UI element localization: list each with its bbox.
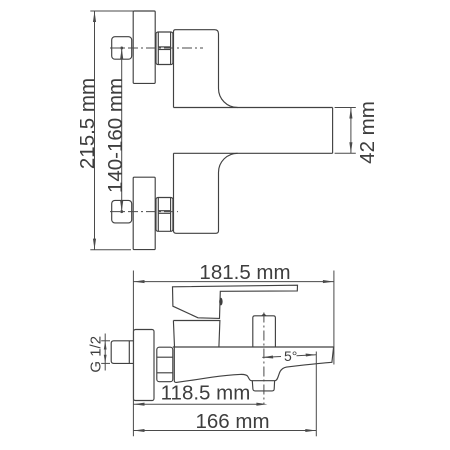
svg-text:5°: 5° (284, 348, 297, 364)
svg-text:118.5 mm: 118.5 mm (161, 382, 251, 405)
dim 42 extension bottom (335, 152, 356, 154)
svg-text:215.5 mm: 215.5 mm (76, 78, 99, 169)
arrow 166 right (305, 429, 316, 432)
arrow 140-160 top (120, 48, 123, 59)
dot eccentric bottom center (120, 210, 123, 213)
arrow 118.5 right (256, 403, 267, 406)
front view: faucet body upper outline with top fillet (174, 30, 238, 108)
side view: cartridge collar (173, 321, 220, 348)
arrow 181.5 right (323, 280, 334, 283)
arrow 215.5 top (93, 11, 96, 22)
arrow G12 top (104, 341, 107, 350)
side view: lever handle (173, 285, 298, 318)
dim 140-160 line (121, 48, 123, 212)
svg-text:42 mm: 42 mm (356, 101, 379, 164)
arrow 140-160 bottom (120, 201, 123, 212)
dim 166 line (134, 430, 317, 432)
side view: wall flange (134, 330, 155, 401)
centerline bottom eccentric (110, 211, 178, 213)
front view: eccentric square top (112, 37, 132, 60)
front view: wall flange top (133, 11, 155, 83)
side view: body and spout outline (173, 347, 334, 382)
arrow 166 left (134, 429, 145, 432)
centerline top eccentric (110, 47, 203, 49)
arrow 118.5 left (134, 403, 145, 406)
dim G1/2 tick bottom (101, 362, 110, 364)
side view: handle indicator dot (219, 298, 222, 306)
dim 42 line (350, 108, 352, 154)
side view: G1/2 threaded nipple (111, 341, 133, 364)
svg-text:166 mm: 166 mm (195, 410, 269, 433)
dim G1/2 tick top (101, 340, 110, 342)
dim 181.5 line (134, 281, 334, 283)
front view: spout bottom edge (174, 152, 333, 154)
arrow 215.5 bottom (93, 239, 96, 250)
dim 215.5 extension bottom (90, 249, 131, 251)
svg-text:G 1/2: G 1/2 (87, 336, 104, 373)
dim G1/2 line (104, 334, 106, 371)
dim 5deg right segment (297, 354, 317, 357)
arrow G12 bottom (104, 355, 107, 364)
arrow 42 top (349, 108, 352, 119)
side view: nipple thread line (128, 341, 130, 364)
svg-text:181.5 mm: 181.5 mm (199, 261, 290, 284)
centerline diverter vertical (263, 313, 265, 405)
side view: diverter knob (252, 381, 274, 391)
extension 166 right line (315, 352, 317, 437)
front view: spout top edge (174, 107, 333, 109)
side view: hex nut (157, 347, 173, 382)
arrow 5deg left (262, 355, 273, 358)
dot eccentric top center (120, 46, 123, 49)
side view: cylinder top tick (261, 313, 266, 316)
dim 118.5 line (134, 403, 260, 405)
front view: wall flange bottom (133, 177, 155, 249)
extension wall line (132, 271, 134, 437)
dim 42 extension top (335, 107, 356, 109)
dim 5deg left segment (262, 356, 281, 359)
dim 215.5 line (94, 11, 96, 250)
front view: hex nut top (156, 32, 173, 65)
svg-text:140-160 mm: 140-160 mm (104, 78, 127, 193)
arrow 5deg right (306, 353, 317, 356)
front view: faucet body lower outline with bottom fillet (174, 153, 238, 233)
side view: check valve cylinder (253, 316, 276, 347)
front view: eccentric square bottom (112, 200, 132, 223)
extension spout tip line (333, 271, 335, 365)
front view: hex nut bottom (156, 198, 173, 232)
dim 215.5 extension top (90, 10, 133, 12)
front view: spout end face (332, 108, 334, 154)
arrow 181.5 left (134, 280, 145, 283)
arrow 42 bottom (349, 142, 352, 153)
